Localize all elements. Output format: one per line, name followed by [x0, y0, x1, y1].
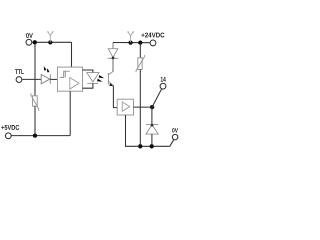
terminal 14 [160, 83, 166, 89]
node diode/collector [112, 57, 115, 60]
LED D1 emission arrows [44, 66, 50, 73]
node +5V junction [33, 133, 37, 137]
node varistor to 0V rail [138, 144, 142, 148]
wire U2 output [134, 106, 153, 108]
node diode to 0V rail [150, 144, 154, 148]
varistor R2 (right) [139, 44, 141, 58]
phototransistor Q1 [108, 72, 113, 86]
terminal +5VDC [5, 133, 11, 139]
wire +5V rail [11, 135, 70, 137]
buffer triangle in U1 [70, 78, 79, 90]
node 0V junction [33, 40, 37, 44]
wire LED cathode to box [50, 78, 57, 80]
schmitt trigger symbol [60, 71, 70, 77]
wire TTL input [22, 78, 41, 80]
LED D1 indicator (anode left) [41, 74, 50, 83]
wire opto LED cathode back to U1 [83, 83, 93, 88]
node output junction [150, 105, 154, 109]
emitter arrowhead [109, 83, 113, 86]
node shield junction left [48, 40, 52, 44]
opto LED D2 (vertical) [87, 73, 99, 84]
wire collector up to diode [112, 58, 114, 71]
wire U1 upper output to opto LED [83, 70, 93, 73]
wire 0V rail top-left [32, 41, 72, 43]
terminal TTL [16, 77, 22, 83]
label +5VDC [1, 125, 19, 130]
freewheel diode D4 (output) [151, 107, 153, 125]
buffer triangle in U2 [122, 102, 130, 111]
label TTL [15, 69, 24, 74]
terminal 0V right [172, 134, 178, 140]
switch contact to terminal 14 [152, 89, 162, 107]
terminal +24VDC [150, 40, 156, 46]
wire +24VDC rail [113, 42, 150, 44]
label 0V left [26, 33, 33, 38]
label +24VDC [141, 33, 164, 38]
wire varistor to +5V rail [34, 106, 36, 135]
wire U1 bottom pin to +5V rail [69, 91, 71, 135]
node varistor junction right [138, 40, 142, 44]
shield Y symbol right [127, 32, 134, 43]
varistor R1 (left) [31, 93, 39, 110]
shield Y symbol left [47, 32, 54, 43]
input stage box U1 [58, 67, 83, 91]
wire drop from 0V rail corner into input box top [71, 42, 73, 67]
terminal 0V left [26, 39, 32, 45]
label 14 [161, 77, 166, 82]
node shield junction right [128, 40, 132, 44]
label 0V right [172, 128, 178, 132]
output buffer box U2 [117, 99, 133, 115]
wire emitter down to buffer box [113, 85, 117, 107]
diode D3 (top, to +24V rail) [112, 43, 114, 49]
opto light arrows [97, 75, 104, 82]
wire 0V rail diagonal to terminal [170, 140, 174, 147]
wire vertical from 0V junction down to varistor [34, 44, 36, 96]
wire U2 bottom pin to 0V rail [126, 115, 170, 146]
